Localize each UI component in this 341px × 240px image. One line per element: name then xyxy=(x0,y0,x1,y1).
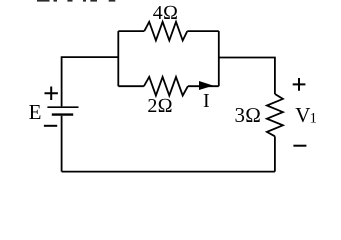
wire: bottom return wire xyxy=(62,171,275,173)
wire from battery E negative terminal down to bottom return wire xyxy=(61,116,63,172)
node B: parallel combination right vertical bus xyxy=(218,31,220,86)
resistor 4-ohm (top branch zigzag) xyxy=(144,22,187,41)
resistor 3-ohm (vertical zigzag) xyxy=(267,94,283,136)
wire: 2-ohm resistor to node B xyxy=(188,85,219,87)
wire from node B right and down to 3-ohm resistor xyxy=(219,58,275,95)
svg-text:3Ω: 3Ω xyxy=(235,103,262,127)
svg-text:V: V xyxy=(295,103,310,127)
V1 minus polarity sign xyxy=(293,145,306,147)
cropped text line remnant at top edge xyxy=(37,0,115,2)
wire: node A to 2-ohm resistor xyxy=(118,85,144,87)
svg-text:4Ω: 4Ω xyxy=(153,2,178,24)
V1 plus polarity sign xyxy=(293,78,306,91)
svg-text:I: I xyxy=(203,90,210,112)
current direction arrowhead xyxy=(199,81,213,90)
wire from battery E positive terminal up and right to parallel node A xyxy=(62,57,119,106)
battery E short (negative) plate xyxy=(52,113,73,115)
battery plus polarity sign xyxy=(45,87,58,101)
wire: node A to 4-ohm resistor xyxy=(118,30,144,32)
wire: 4-ohm resistor to node B xyxy=(187,30,219,32)
svg-text:2Ω: 2Ω xyxy=(147,95,172,117)
wire from 3-ohm resistor down to bottom return wire xyxy=(274,136,276,171)
battery minus polarity sign xyxy=(44,125,57,127)
resistor 2-ohm (bottom branch zigzag) xyxy=(144,77,188,96)
node A: parallel combination left vertical bus xyxy=(117,31,119,86)
battery E long (positive) plate xyxy=(47,106,78,108)
svg-text:E: E xyxy=(29,100,42,124)
svg-text:1: 1 xyxy=(310,111,317,127)
